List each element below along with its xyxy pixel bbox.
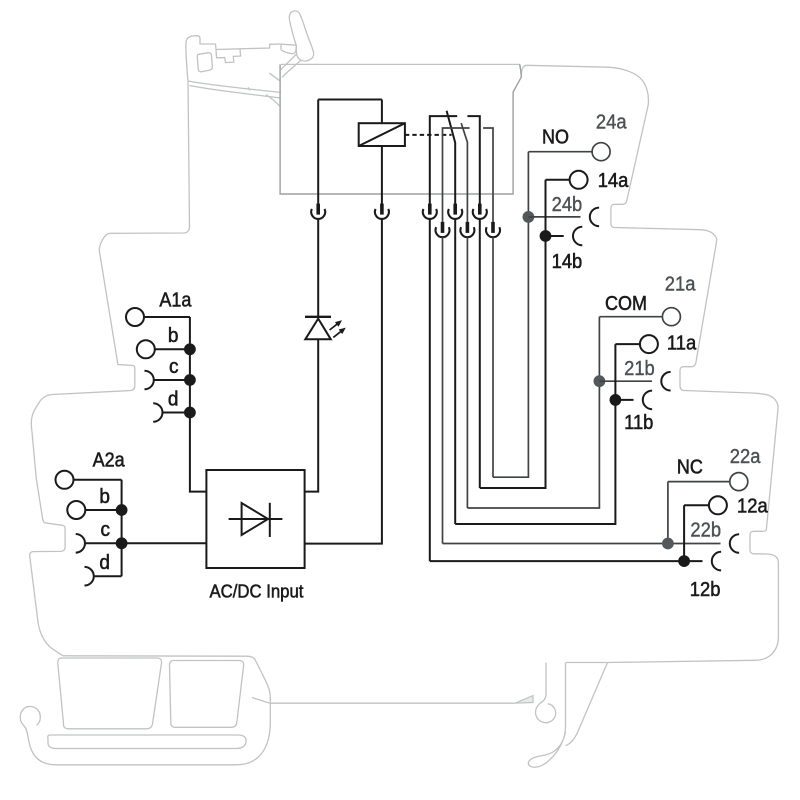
DIN rail line [252,698,515,704]
wire 11 bus [455,344,615,524]
plug pin upper row contact 12 [428,204,432,215]
plug pin upper row contact 14 [478,204,482,215]
wire 21a [599,316,662,318]
svg-text:14a: 14a [598,170,629,192]
terminal circle 12a [709,496,727,514]
junction A1b [184,343,196,355]
svg-text:NC: NC [677,457,703,479]
terminal socket 12b [712,552,721,571]
relay unit outline box [280,64,521,194]
socket cup upper row contact 11 [448,209,462,219]
svg-text:AC/DC Input: AC/DC Input [210,581,304,602]
terminal circle 24a [592,143,610,161]
housing bottom rear foot wedge [566,663,608,746]
plug pin upper row contact 11 [453,204,457,215]
terminal circle A2b [67,501,85,519]
wire 11a [615,343,639,345]
housing clip hook tail [281,54,301,77]
plug pin lower row contact 24 [491,222,495,233]
wire A2d [94,575,122,577]
wire relay to 14 [479,219,481,489]
wire relay to 22 and 22b [443,543,721,545]
socket cup upper row coil right [375,209,389,219]
wire A2c to rectifier [85,542,206,544]
relay coil K1 [359,123,405,146]
svg-text:22b: 22b [690,520,721,542]
wire plug to LED [317,219,319,317]
contact fixed NO lead switch 1 [467,116,479,204]
svg-text:21a: 21a [665,274,696,296]
svg-text:14b: 14b [552,251,583,273]
contact blade switch 1 [447,111,456,205]
terminal circle A2a [56,471,74,489]
wire 24a [528,151,592,153]
junction A2c [116,537,128,549]
contact blade switch 2 [461,123,467,222]
wire A2 bus [121,480,123,576]
wire 24 bus [493,152,528,478]
wire relay 12 vertical [429,219,431,562]
housing DIN-rail clip left post [186,36,240,227]
terminal circle 22a [730,473,748,491]
socket cup lower row contact 24 [486,227,500,237]
svg-text:d: d [168,388,179,411]
wire relay to 21 [466,237,468,508]
plug pin upper row coil right [380,204,384,215]
svg-text:COM: COM [605,293,647,315]
plug pin lower row contact 21 [466,222,470,233]
housing top curved face band [188,81,281,106]
contact fixed NC lead switch 2 [443,128,470,222]
wire A1c [154,379,190,381]
svg-text:A1a: A1a [159,290,191,312]
housing right notch at 24b [611,200,717,361]
svg-text:A2a: A2a [93,450,125,472]
wire 12a [684,504,708,506]
terminal circle A1a [126,308,144,326]
junction 11b [610,394,622,406]
wire coil right to rectifier [305,219,382,544]
terminal socket A1c [145,371,154,390]
terminal circle 14a [570,171,588,189]
rectifier box U1 [206,470,304,568]
socket cup upper row contact 14 [473,209,487,219]
svg-text:12a: 12a [737,496,768,518]
terminal socket A2c [76,534,85,553]
housing clip inner rounded rectangle [197,53,212,72]
junction 12b [678,555,690,567]
housing right notch at 21b [680,361,778,530]
wire 11b [615,399,633,401]
DIN rail foot slot [48,735,246,749]
wire coil left lead down to plug [317,100,319,205]
wire relay to 12 and 12b [430,560,703,562]
terminal socket 22b [730,534,739,553]
terminal socket 24b [590,208,599,227]
socket cup lower row contact 22 [436,227,450,237]
housing clip wedge near relay box corner [270,73,280,81]
svg-text:b: b [99,485,110,508]
wire 21 bus [467,317,599,508]
DIN rail foot outer outline [20,656,270,765]
wire coil top lead [381,100,383,124]
junction 14b [540,230,552,242]
socket cup upper row contact 12 [423,209,437,219]
housing clip T-piece [216,49,241,63]
svg-text:22a: 22a [730,447,761,469]
wire 21b [599,380,652,382]
svg-text:21b: 21b [624,359,655,381]
terminal socket 21b [661,372,670,391]
wire A2a [74,479,122,481]
wire 12 bus [683,505,685,561]
socket cup upper row coil left [311,209,325,219]
housing top edge [281,64,648,200]
junction A1d [184,407,196,419]
terminal socket A2d [85,567,94,586]
svg-text:b: b [168,325,179,348]
terminal circle 21a [662,308,680,326]
wire LED to rectifier [305,339,319,491]
wire 14 bus [480,180,546,488]
svg-text:NO: NO [542,127,569,149]
wire 14b [546,235,564,237]
junction A1c [184,374,196,386]
dashed actuator link [405,134,452,136]
wire A2b [86,509,122,511]
DIN rail foot inner panel right [170,661,244,728]
terminal socket 11b [643,391,652,410]
junction 21b [594,375,606,387]
junction 22b [662,538,674,550]
wire 22a [668,481,730,483]
wire A1d [163,412,190,414]
wire relay 22 vertical [442,237,444,544]
contact fixed NO lead switch 2 [483,128,493,222]
junction A2b [116,504,128,516]
housing right notch at 22b and lower right edge [608,530,779,663]
contact fixed NC lead switch 1 [430,116,457,204]
housing clip lever band [281,44,296,53]
wire A1b [155,348,190,350]
svg-text:11a: 11a [667,333,697,355]
terminal circle 11a [640,335,658,353]
svg-text:24b: 24b [552,194,583,216]
svg-text:c: c [169,355,179,378]
wire 22 bus [667,482,669,544]
wire 14a [546,179,570,181]
wire A1 bus [190,317,207,492]
plug pin lower row contact 22 [441,222,445,233]
housing clip top edge with tab [240,44,281,50]
wire relay to 11 [454,219,456,525]
svg-text:24a: 24a [596,112,627,134]
terminal circle A1b [137,340,155,358]
plug pin upper row coil left [316,204,320,215]
svg-text:d: d [99,552,110,575]
wire relay to 24 [492,237,494,477]
wire coil top link [318,99,382,101]
housing bottom right latch [528,663,565,768]
rectifier diode symbol [229,503,283,537]
svg-text:12b: 12b [690,579,721,601]
terminal socket 14b [573,227,582,246]
DIN rail foot inner panel left [58,658,162,729]
junction 24b [523,211,535,223]
housing upper-left body outline [30,227,190,656]
wire coil bottom lead to plug [381,146,383,205]
LED indicator [305,317,346,340]
wire 24b [528,216,580,218]
svg-text:11b: 11b [624,413,653,435]
wire A1a [145,316,190,318]
housing clip release hook [289,11,313,61]
svg-text:c: c [101,519,111,542]
socket cup lower row contact 21 [460,227,474,237]
terminal socket A1d [153,403,162,422]
